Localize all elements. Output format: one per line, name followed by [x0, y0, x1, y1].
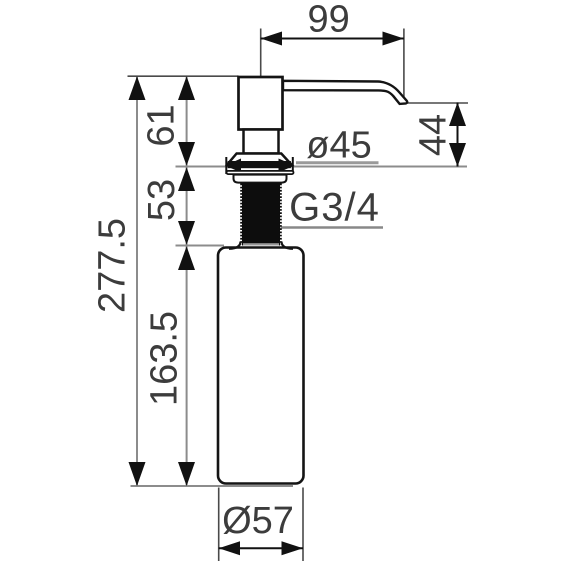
svg-text:Ø57: Ø57	[222, 500, 294, 542]
svg-text:G3/4: G3/4	[289, 186, 380, 230]
svg-text:277.5: 277.5	[91, 218, 133, 313]
svg-text:53: 53	[141, 179, 183, 221]
svg-text:61: 61	[141, 104, 183, 146]
svg-text:44: 44	[413, 114, 455, 156]
svg-text:ø45: ø45	[306, 125, 371, 167]
svg-text:163.5: 163.5	[144, 311, 186, 406]
svg-text:99: 99	[307, 0, 349, 41]
